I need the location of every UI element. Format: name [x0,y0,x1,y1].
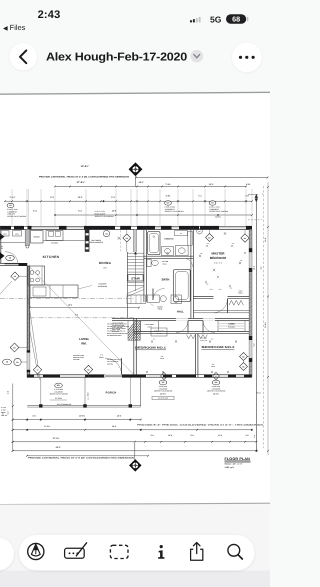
svg-text:12'-6½: 12'-6½ [160,392,166,395]
svg-text:2'-8½: 2'-8½ [166,194,171,197]
svg-text:14'-0: 14'-0 [112,425,116,428]
svg-text:REF EL: REF EL [1,412,6,414]
svg-text:-REFER TO ELEVATION: -REFER TO ELEVATION [7,215,27,218]
svg-text:2'-0: 2'-0 [211,339,214,341]
svg-text:PROVIDE CATHEDRAL TRUSS AT 2’-: PROVIDE CATHEDRAL TRUSS AT 2’-0 [W. CANT… [28,457,135,460]
svg-text:4'-6: 4'-6 [32,415,35,418]
svg-text:13'-6½": 13'-6½" [81,165,90,168]
svg-text:4'-0: 4'-0 [150,434,153,437]
svg-text:9'-6: 9'-6 [103,266,106,269]
svg-text:27'-6½: 27'-6½ [264,322,267,328]
svg-text:DW: DW [105,232,108,235]
svg-text:-REFER TO ELEVATION: -REFER TO ELEVATION [209,210,229,213]
svg-text:PROVIDE 8’-2" PRE-ENG. CANTILE: PROVIDE 8’-2" PRE-ENG. CANTILEVERED TRUS… [137,424,264,427]
svg-text:11'-2: 11'-2 [218,434,222,437]
svg-text:BEDROOM NO.1: BEDROOM NO.1 [135,347,167,350]
svg-text:5'-2: 5'-2 [7,412,10,415]
svg-text:7'-6½: 7'-6½ [165,183,170,186]
svg-text:5'-1: 5'-1 [198,194,201,197]
svg-text:BEDROOM: BEDROOM [210,256,227,260]
svg-text:4'-2: 4'-2 [245,434,248,437]
svg-text:KITCHEN: KITCHEN [43,255,60,259]
svg-text:12'-0½: 12'-0½ [213,392,219,395]
svg-text:5'-0 x 7'-0: 5'-0 x 7'-0 [214,261,222,264]
svg-text:37'-0½: 37'-0½ [53,437,60,440]
svg-text:LINEN: LINEN [228,323,235,326]
svg-text:N. CAB: N. CAB [1,407,6,409]
svg-text:HALL: HALL [177,310,185,313]
svg-text:ALL DECKING 5/4: ALL DECKING 5/4 [57,403,71,406]
svg-text:17'-6½: 17'-6½ [44,425,50,428]
svg-text:68: 68 [232,14,240,23]
svg-text:W2: W2 [215,381,218,384]
svg-text:4'-2: 4'-2 [260,267,263,270]
svg-text:BP1: BP1 [57,384,61,387]
svg-text:2'-0: 2'-0 [153,339,156,341]
svg-text:11'-6: 11'-6 [264,238,267,242]
svg-text:STAIR: STAIR [131,277,140,281]
svg-text:13'-2: 13'-2 [253,266,256,270]
svg-text:BEDROOM NO.2: BEDROOM NO.2 [202,346,236,349]
svg-text:W1: W1 [167,202,170,205]
svg-text:7'-6½": 7'-6½" [9,196,15,199]
svg-text:10'-8: 10'-8 [168,434,172,437]
svg-text:-REFER TO ELEVATION: -REFER TO ELEVATION [95,215,115,218]
svg-text:4'-2: 4'-2 [253,435,256,438]
svg-text:2'-2: 2'-2 [190,434,193,437]
svg-text:SCALE : 1/4" = 1’-0": SCALE : 1/4" = 1’-0" [225,463,243,466]
svg-text:W2: W2 [162,381,165,384]
svg-text:1,080 sq.ft.: 1,080 sq.ft. [225,466,235,469]
svg-text:-REFER TO ELEVATION: -REFER TO ELEVATION [165,210,185,213]
svg-text:W1: W1 [211,202,214,205]
svg-text:4'-6: 4'-6 [0,246,3,249]
svg-text:10'-8½: 10'-8½ [79,415,85,418]
svg-text:2'-6: 2'-6 [7,391,10,394]
svg-text:9'-2: 9'-2 [253,344,256,347]
svg-text:DINING: DINING [99,261,112,265]
svg-text:17'-6½": 17'-6½" [77,181,86,184]
svg-text:W1: W1 [9,204,12,207]
svg-text:16'-0: 16'-0 [117,415,121,418]
svg-text:ENSUITE: ENSUITE [164,238,174,241]
svg-text:12'-6½: 12'-6½ [215,216,221,219]
svg-text:17'-10½: 17'-10½ [55,397,62,400]
svg-text:RM.: RM. [81,341,86,345]
svg-text:FLOOR PLAN: FLOOR PLAN [225,457,251,461]
svg-text:BATH: BATH [162,277,170,281]
svg-text:PROVIDE CATHEDRAL TRUSS AT 2’-: PROVIDE CATHEDRAL TRUSS AT 2’-0 [W. CANT… [39,175,130,178]
svg-text:Alex Hough-Feb-17-2020: Alex Hough-Feb-17-2020 [46,52,187,64]
svg-text:PORCH: PORCH [106,391,117,394]
svg-text:4'-11: 4'-11 [257,392,261,395]
svg-text:5G: 5G [210,15,222,25]
